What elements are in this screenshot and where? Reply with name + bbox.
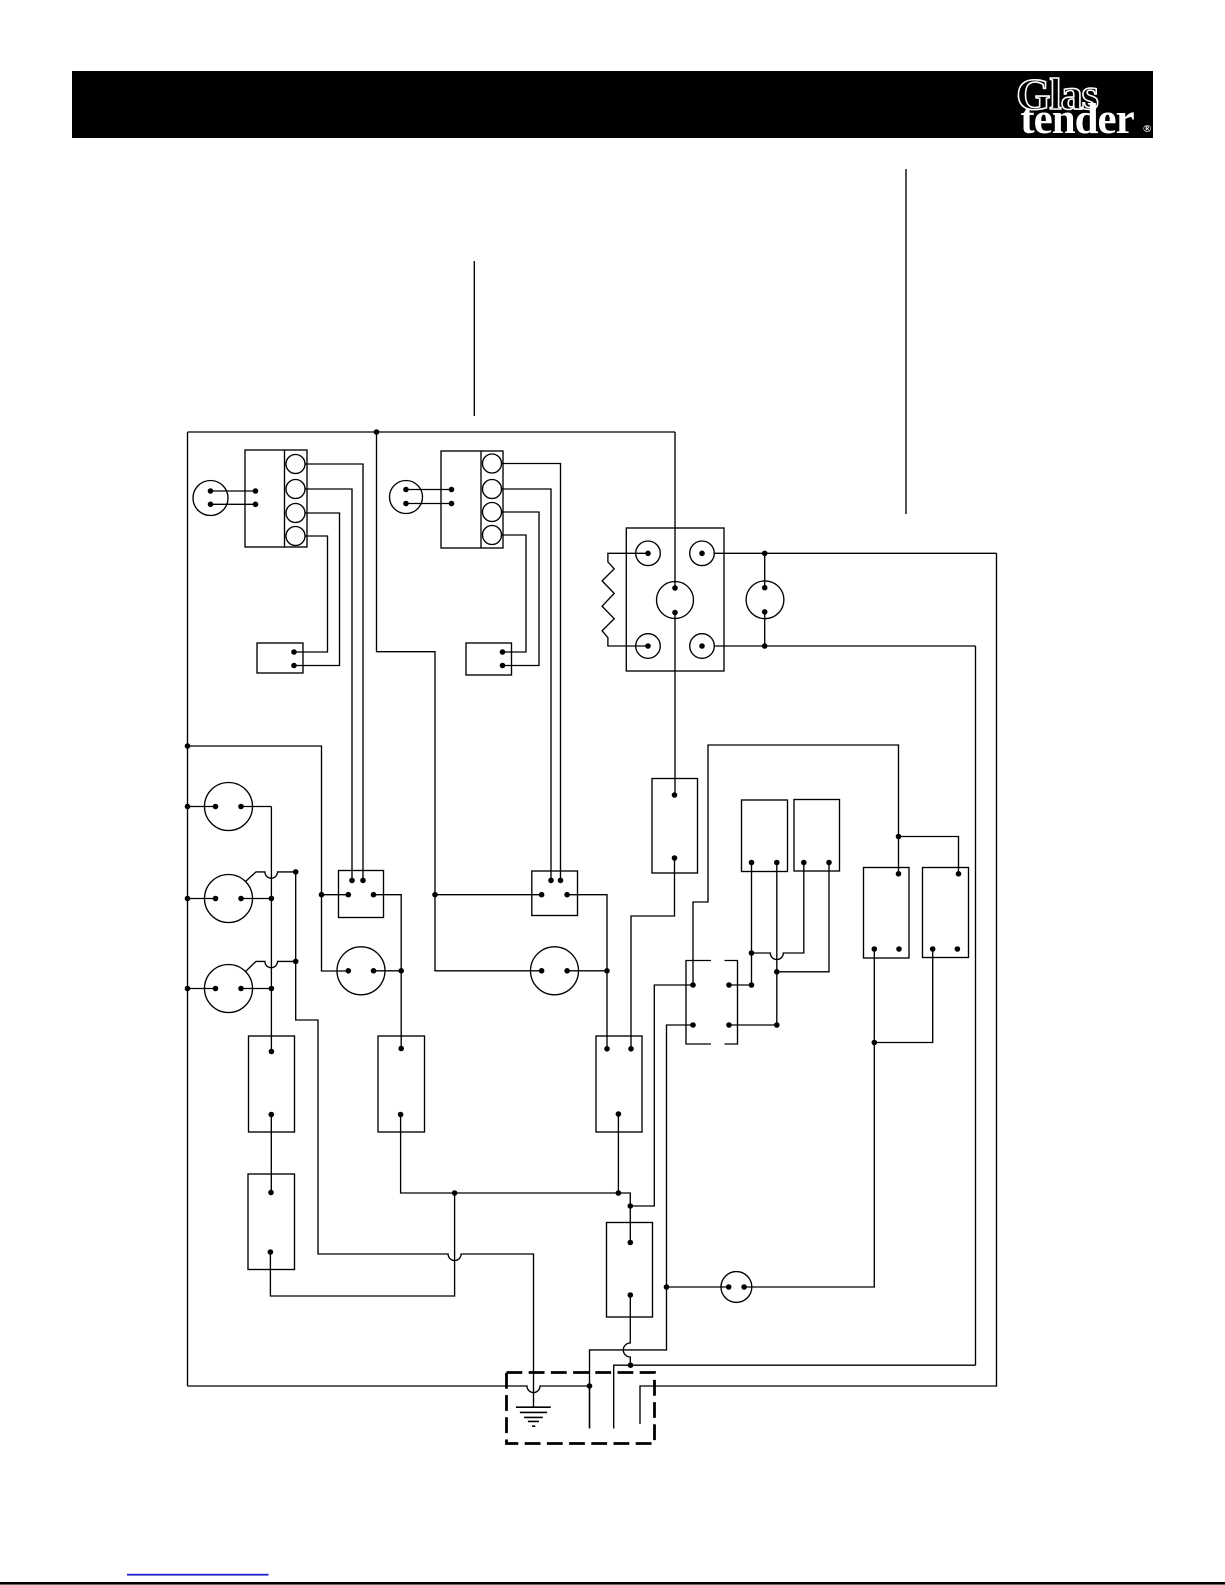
pilot light — [721, 1272, 752, 1303]
wire: S2 output — [567, 895, 607, 1049]
wire: motor C output — [241, 988, 271, 990]
junction: control node — [628, 1203, 634, 1209]
start relay/capacitor — [746, 581, 784, 619]
wire: TB2-1 to speed switch S2 — [502, 464, 561, 881]
junction: fan M4 output tie — [604, 968, 610, 974]
pump motor A — [205, 783, 253, 831]
wire: DS2 left lead (hop over DS1 lead) — [752, 863, 804, 960]
junction: neutral tap motor B — [185, 896, 191, 902]
wire: motor A output — [241, 806, 271, 808]
junction: DS1/DS2 tie — [749, 950, 755, 956]
fan speed switch S2 — [532, 871, 578, 916]
wire: pilot light left lead — [667, 1286, 729, 1288]
junction: neutral / cord conductor — [587, 1383, 593, 1389]
junction: light feed split — [896, 834, 902, 840]
junction: ground pigtail B — [293, 869, 299, 875]
junction: motor B tie — [269, 896, 275, 902]
wire: neutral bus to compressor motor — [674, 432, 676, 588]
wire: compressor motor to overload — [674, 613, 676, 796]
compressor motor — [657, 582, 694, 619]
overload protector — [652, 779, 698, 874]
wire: ground bus (hop over riser) — [296, 872, 534, 1407]
pump motor B — [205, 875, 253, 923]
leader line (callout to compressor) — [905, 169, 907, 514]
wire: M2 leads — [406, 487, 454, 507]
junction: DS to lamp switch — [774, 1022, 780, 1028]
junction: neutral tap 1 — [185, 743, 191, 749]
Glastender logo — [1016, 70, 1151, 143]
TB2 terminal 2 — [483, 480, 502, 499]
wire: feed branch to light L2 — [899, 837, 959, 874]
wire: line 1 riser to line node — [975, 646, 977, 1365]
wire: motor B output — [241, 898, 271, 900]
junction: start device top — [762, 551, 768, 557]
junction: DS right tie — [774, 969, 780, 975]
junction: DS1 to lamp switch — [749, 982, 755, 988]
TB1 terminal 4 — [286, 527, 305, 546]
door switch DS2 — [794, 800, 840, 872]
compressor terminal C (top-left) — [636, 541, 661, 566]
wire: neutral to motor A — [188, 806, 216, 808]
wire: top neutral bus — [188, 431, 676, 433]
wire: lamp switch common down — [667, 1025, 694, 1287]
TB2 terminal 4 — [483, 526, 502, 545]
wire: line 2 riser to cord — [640, 553, 997, 1424]
wire: S1 neutral stub — [322, 894, 349, 896]
run winding resistor (zigzag) — [602, 553, 648, 646]
power cord plug (dashed box) — [507, 1373, 655, 1444]
wire: S1 output — [374, 895, 402, 1049]
junction: motor C tie — [269, 986, 275, 992]
wire: common run to cord — [590, 1287, 667, 1429]
wire: neutral to S1 and fan M3 — [188, 746, 349, 971]
terminal block TB1 — [245, 450, 307, 547]
fan motor M4 — [531, 947, 579, 995]
junction: ground pigtail C — [293, 959, 299, 965]
junction: neutral tap motor A — [185, 804, 191, 810]
temperature control T4 — [596, 1036, 642, 1132]
wire: S2 neutral stub — [435, 894, 542, 896]
junction: lights common — [872, 1040, 878, 1046]
wire: control line — [401, 1115, 631, 1243]
wire: TB1-1 to speed switch S1 — [305, 464, 363, 880]
TB1 terminal 3 — [286, 504, 305, 523]
junction: line 1 node — [628, 1362, 634, 1368]
junction: pilot light tap — [664, 1284, 670, 1290]
TB2 terminal 1 — [483, 454, 502, 473]
start relay T5 — [607, 1223, 653, 1318]
wire: L2 common lead — [874, 949, 932, 1043]
wire: DS1 left lead down — [751, 863, 753, 986]
wire: M4 right lead — [567, 970, 607, 972]
compressor terminal (bottom-left) — [636, 634, 661, 659]
wire: M1 leads — [211, 488, 259, 507]
wire: TB1-3 to connector P1 — [294, 513, 340, 666]
light fixture L1 — [864, 868, 910, 959]
ground pigtail motor B (hop over bus) — [246, 872, 296, 882]
terminal block TB2 — [441, 451, 503, 548]
wire: control node to lamp switch — [630, 985, 693, 1206]
header bar — [72, 71, 1153, 138]
wire: start device top lead — [764, 553, 766, 587]
junction: temperature control tie — [616, 1190, 622, 1196]
junction: fan M3 output tie — [398, 968, 404, 974]
wire: lamp switch to DS1 — [729, 984, 752, 986]
svg-text:®: ® — [1143, 123, 1151, 135]
wire: T2 output riser — [270, 1193, 454, 1296]
lamp switch (dashed outline) — [686, 961, 738, 1045]
wire: neutral to motor B — [188, 898, 216, 900]
lamp switch pins — [690, 982, 732, 1028]
wire: temperature control output — [617, 1114, 619, 1193]
compressor terminal box — [626, 528, 724, 671]
wire: lamp switch to DS chain — [729, 1024, 777, 1026]
door switch DS1 — [742, 800, 788, 872]
junction: neutral tap motor C — [185, 986, 191, 992]
wire: motor output bus — [270, 807, 272, 1052]
wire: relay to line node (hop over common run) — [623, 1295, 630, 1365]
TB2 terminal 3 — [483, 503, 502, 522]
wire: lamp switch to light feed — [693, 745, 899, 985]
fan motor M3 — [337, 947, 385, 995]
wire: start device bottom lead — [764, 612, 766, 646]
connector P2 — [466, 643, 512, 675]
footer rule — [0, 1582, 1225, 1585]
wire: T1 to T2 — [270, 1115, 272, 1193]
svg-text:tender: tender — [1020, 96, 1134, 143]
junction: S2 neutral — [432, 892, 438, 898]
junction: neutral tap for fan circuit 2 — [374, 429, 380, 435]
fan speed switch S1 — [339, 871, 384, 918]
connector P1 — [257, 643, 303, 673]
footer link rule — [127, 1574, 269, 1576]
fan motor M1 — [193, 481, 228, 516]
wire: line 1 distribution — [614, 1365, 976, 1428]
wire: terminal S to line 2 riser — [714, 552, 997, 554]
wire: TB2-2 to speed switch S2 — [502, 489, 552, 880]
junction: start device bottom — [762, 643, 768, 649]
TB1 terminal 2 — [286, 480, 305, 499]
wire: neutral bottom run (hop over ground lead) — [188, 1386, 590, 1393]
ground pigtail motor C (hop over bus) — [246, 961, 296, 971]
wire: TB1-2 to speed switch S1 — [305, 489, 352, 880]
light fixture L2 — [923, 868, 969, 958]
wire: TB2-3 to connector P2 — [502, 512, 540, 666]
wire: lights common to pilot light — [744, 949, 874, 1287]
compressor terminal S (top-right) — [690, 541, 715, 566]
wire: TB2-4 to connector P2 — [502, 535, 527, 652]
ground symbol — [516, 1407, 551, 1426]
switch T2 — [248, 1174, 295, 1270]
junction: T2/thermostat tie — [452, 1190, 458, 1196]
wire: neutral to S2 and fan M4 — [377, 432, 542, 971]
cord conductor (neutral) — [589, 1386, 591, 1429]
leader line (callout to supply bus) — [473, 261, 475, 416]
wire: TB1-4 to connector P1 — [294, 536, 328, 652]
wire: terminal R to line 1 riser — [714, 645, 976, 647]
switch T1 — [249, 1036, 295, 1132]
wire: overload to temperature control — [631, 858, 675, 1049]
thermostat T3 — [378, 1036, 425, 1132]
wire: left neutral bus — [187, 432, 189, 1386]
wire: DS1 right lead down — [776, 863, 778, 1026]
fan motor M2 — [390, 481, 423, 514]
pump motor C — [205, 965, 253, 1013]
wire: neutral to motor C — [188, 988, 216, 990]
wire: M3 right lead — [374, 970, 402, 972]
wire: DS2 right lead — [777, 863, 829, 972]
junction: S1 neutral — [319, 892, 325, 898]
TB1 terminal 1 — [286, 455, 305, 474]
compressor terminal R (bottom-right) — [690, 634, 715, 659]
